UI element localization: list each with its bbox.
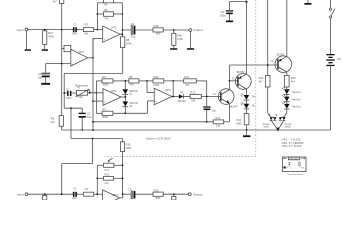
node top rail junction (square): [246, 1, 248, 3]
wire sidechain from R8 down and left: [64, 48, 123, 109]
wire T1 collector up: [228, 65, 230, 90]
svg-text:R25: R25: [291, 76, 296, 80]
node rail1 left end: [92, 121, 94, 123]
wire OP3 plus from bus: [92, 100, 103, 102]
node OP3 feedback top: [124, 80, 126, 82]
potentiometer P2: [104, 158, 114, 172]
svg-text:100µ: 100µ: [220, 13, 226, 17]
wire T1 emitter down to rail1: [228, 104, 230, 122]
node OP3 output: [124, 96, 126, 98]
wire OP3 feedback left vertical: [95, 81, 97, 113]
wire input row ch1: [28, 29, 73, 31]
svg-text:C4: C4: [131, 22, 135, 26]
capacitor C6 100u (supply decoupling): [220, 2, 233, 18]
node T2 base junction: [229, 80, 231, 82]
LDR opto resistor box (channel 1): [62, 45, 71, 51]
svg-text:Red led: Red led: [292, 91, 301, 94]
opto LED pair right (Comp/red): [279, 117, 292, 128]
output jack ch2: [188, 193, 202, 197]
wire T3 emitter up: [286, 0, 288, 56]
svg-text:Output: Output: [194, 28, 203, 32]
wire ch2 sidechain branch down: [71, 108, 123, 138]
capacitor C7 100n (threshold): [64, 87, 72, 100]
transistor T1 BC547: [213, 89, 238, 109]
wire T1 base cap stem: [206, 97, 208, 107]
svg-text:R15: R15: [154, 24, 159, 28]
svg-text:BC547: BC547: [230, 105, 238, 109]
svg-text:4k7: 4k7: [53, 0, 58, 3]
op-amp OP1: [71, 49, 88, 66]
svg-text:-: -: [104, 91, 105, 95]
wire C4b to R15b: [135, 193, 153, 195]
wire OP3 output: [121, 95, 125, 102]
junction input/R1 bias node: [61, 29, 63, 31]
resistor R6 (cropped at top): [104, 0, 114, 6]
diode D4: [241, 93, 256, 103]
wire T2 emitter up to top rail: [245, 2, 247, 74]
capacitor C4b 10u (output, ch2): [128, 188, 136, 199]
capacitor C2 10u: [38, 64, 50, 80]
svg-text:R9: R9: [102, 75, 106, 79]
opto LED pair left (Power/red): [263, 114, 277, 128]
svg-text:10k: 10k: [191, 98, 196, 102]
wire P1 to OP3 minus input: [88, 92, 103, 94]
node rail1/cap junction: [206, 121, 208, 123]
svg-text:220k: 220k: [102, 115, 108, 119]
svg-text:R36: R36: [177, 34, 182, 38]
resistor R10 220k: [153, 75, 164, 87]
ground under C6: [226, 14, 233, 22]
svg-text:47k: 47k: [104, 16, 109, 20]
svg-text:Output: Output: [193, 193, 202, 197]
diode D2 BAT43: [123, 102, 139, 114]
resistor R15b 500: [153, 189, 163, 201]
LED DL2 red: [282, 94, 301, 102]
svg-text:10µ: 10µ: [211, 109, 216, 113]
svg-text:OP3: OP3: [112, 193, 118, 197]
svg-text:100n: 100n: [66, 96, 72, 100]
node R20 right on bus: [122, 177, 124, 179]
wire opto pairs converge to rail: [271, 120, 284, 130]
svg-text:Optos = LCR 0202: Optos = LCR 0202: [146, 136, 171, 140]
svg-text:6M0: 6M0: [236, 122, 242, 126]
node OP2 minus junction: [97, 29, 99, 31]
svg-text:BC557: BC557: [277, 52, 285, 56]
node A junction input/R37: [44, 29, 46, 31]
wire OP1 output bus vertical: [92, 38, 94, 130]
svg-text:470: 470: [129, 83, 134, 87]
resistor R24 4k7: [259, 75, 270, 87]
node OP1 plus / bias bus: [61, 63, 63, 65]
node OP3b minus junction: [96, 193, 98, 195]
svg-text:R37: R37: [48, 31, 53, 35]
ground under C2: [41, 77, 50, 85]
svg-text:220k: 220k: [103, 83, 109, 87]
resistor R36 470k: [172, 30, 184, 45]
diode D6: [241, 102, 256, 113]
transistor T3 BC557: [270, 52, 291, 72]
svg-text:-: -: [104, 193, 105, 197]
node threshold/feedback junction: [96, 92, 98, 94]
svg-text:D3: D3: [180, 91, 184, 95]
resistor R3 10k: [83, 22, 93, 35]
svg-text:300k: 300k: [126, 146, 132, 150]
svg-text:(red): (red): [285, 126, 290, 129]
wire R3 to OP2 minus node: [94, 29, 103, 31]
capacitor C5 10u (attack): [79, 112, 92, 130]
svg-text:10k: 10k: [84, 32, 89, 36]
wire R15 to output jack: [163, 29, 189, 31]
wire R24 down to opto LEDs: [268, 87, 271, 117]
svg-text:R3: R3: [85, 22, 89, 26]
wire T2 base: [229, 80, 238, 82]
capacitor C1b 68n: [72, 187, 77, 200]
svg-text:LCR 0202: LCR 0202: [289, 159, 299, 161]
svg-text:OP4: OP4: [165, 88, 171, 92]
svg-text:63n: 63n: [72, 32, 77, 36]
label op-amp types: [282, 138, 304, 148]
resistor R9 220k: [102, 75, 113, 86]
node OP4 feedback junction: [172, 80, 174, 82]
wire R3b to OP3b: [94, 193, 103, 195]
node P34 on rail: [246, 129, 248, 131]
node P2 right on bus: [122, 164, 124, 166]
node feedback left mid: [97, 13, 99, 15]
svg-text:560: 560: [156, 32, 161, 36]
node output/R36 junction: [173, 29, 175, 31]
wire sidechain lower elbow to C5: [64, 108, 82, 113]
svg-text:R8: R8: [126, 38, 130, 42]
node OP4 output: [172, 96, 174, 98]
resistor R15 500: [153, 24, 163, 35]
wire bias bus down to OP1 + node: [61, 30, 63, 64]
resistor R38 470k (cropped): [43, 194, 47, 200]
wire OP3 feedback row: [96, 80, 206, 82]
svg-text:C4: C4: [128, 188, 132, 192]
resistor R2 47k (bias divider): [50, 64, 63, 130]
wire feedback top row: [97, 2, 122, 4]
svg-text:C1: C1: [73, 22, 77, 26]
svg-text:Input: Input: [17, 28, 24, 32]
node OP1 output: [92, 57, 94, 59]
svg-text:C2: C2: [38, 72, 42, 76]
wire OP2 plus input routing: [93, 38, 103, 57]
node input/R38 junction: [44, 193, 46, 195]
svg-text:10k: 10k: [216, 123, 221, 127]
wire base bias row to T3: [229, 64, 278, 66]
LED DL1 red: [282, 87, 301, 95]
svg-text:OP3, 4 = TL072: OP3, 4 = TL072: [282, 144, 302, 148]
wire LED chain down to opto pair: [284, 109, 287, 117]
resistor R20 47k: [97, 172, 122, 184]
wire feedback mid row: [97, 13, 122, 15]
input jack J1 (channel 1): [17, 28, 28, 32]
ground top right (supply return, cropped): [304, 0, 311, 5]
wire T2 collector down to D4: [245, 89, 247, 95]
svg-text:100k: 100k: [126, 42, 132, 46]
diode D3 BAT43: [178, 91, 190, 103]
ground under R36: [170, 45, 177, 49]
potentiometer P34 6M0: [236, 114, 249, 130]
resistor R16 300k: [120, 139, 132, 195]
svg-text:P34: P34: [236, 118, 241, 122]
svg-text:View from above: View from above: [287, 173, 303, 176]
node sidechain/opto branch: [70, 107, 72, 109]
svg-text:OP3: OP3: [111, 89, 117, 93]
resistor R36b 470k (cropped): [172, 194, 176, 200]
svg-text:Input: Input: [17, 193, 24, 197]
ground under output jack ch1: [187, 31, 194, 49]
wire C1b to R3b: [77, 193, 84, 195]
resistor R1 4k7 (from top rail, cropped): [53, 0, 64, 30]
resistor R12 10k: [190, 91, 221, 103]
svg-text:4k7: 4k7: [259, 80, 264, 84]
wire C4 to R15: [135, 29, 153, 31]
wire OP4 feedback vertical: [172, 81, 174, 97]
node C5 on rail: [81, 129, 83, 131]
node T3 base bias junction: [267, 64, 269, 66]
svg-text:BC557: BC557: [237, 70, 245, 74]
svg-text:470k: 470k: [177, 37, 183, 41]
svg-text:C1: C1: [73, 187, 77, 191]
wire P1 wiper tie: [89, 90, 91, 94]
svg-text:7k5: 7k5: [185, 83, 190, 87]
svg-text:Red led: Red led: [292, 106, 301, 109]
wire C1 to R3: [77, 29, 84, 31]
svg-text:C5: C5: [87, 112, 91, 116]
svg-text:OP2: OP2: [111, 25, 117, 29]
resistor R25 4k7: [285, 75, 297, 87]
wire OP3b output jog: [120, 194, 132, 198]
transistor T2 BC557: [231, 70, 251, 90]
node T1 base junction: [206, 96, 208, 98]
wire ch2 bias routing: [62, 139, 93, 195]
svg-text:R3: R3: [85, 187, 89, 191]
ground under input J1: [25, 31, 31, 51]
svg-text:63n: 63n: [72, 196, 77, 200]
node feedback/R10 junction: [146, 80, 148, 82]
wire T3 collector to R25: [286, 72, 288, 75]
resistor R3b 10k: [83, 187, 93, 196]
svg-text:BAT43: BAT43: [178, 99, 186, 103]
wire feedback right vertical to output: [121, 3, 123, 37]
op-amp OP3 (rectifier): [103, 89, 121, 106]
input jack J2 (channel 2): [17, 193, 28, 197]
svg-text:-: -: [104, 28, 105, 32]
svg-text:(BAT43): (BAT43): [129, 102, 138, 105]
svg-text:220k: 220k: [153, 83, 159, 87]
node sidechain/C7 junction: [63, 92, 65, 94]
node ch2 bias on input row: [61, 193, 63, 195]
svg-text:R12: R12: [191, 91, 196, 95]
svg-text:47k: 47k: [105, 181, 110, 185]
svg-text:50k: 50k: [78, 95, 83, 99]
wire OP4 minus branch: [147, 81, 154, 93]
svg-text:10µ: 10µ: [38, 76, 43, 80]
svg-text:C7: C7: [66, 87, 70, 91]
svg-text:R7: R7: [103, 107, 107, 111]
potentiometer P1 50k: [71, 86, 89, 100]
resistor R7 220k: [96, 107, 147, 119]
svg-text:(red): (red): [264, 126, 269, 129]
node feedback right mid: [122, 13, 124, 15]
resistor R37 470k: [43, 30, 55, 45]
node OP1 bus on rail: [92, 129, 94, 131]
wire ground rail (rail2): [62, 129, 331, 131]
svg-text:47k: 47k: [50, 120, 55, 124]
svg-text:R24: R24: [259, 76, 264, 80]
wire OP1 output: [88, 57, 93, 59]
wire P2/R20 left link: [97, 165, 103, 194]
resistor R5 47k: [104, 8, 114, 20]
wire input row ch2: [28, 193, 73, 195]
svg-text:560: 560: [156, 196, 161, 200]
svg-text:10µ: 10µ: [131, 35, 136, 39]
svg-text:OP1: OP1: [78, 50, 84, 54]
node OP2 output: [122, 33, 124, 35]
node output/R36b junction: [173, 193, 175, 195]
svg-text:+9V: +9V: [337, 58, 342, 61]
svg-text:R10: R10: [154, 75, 159, 79]
svg-text:R5: R5: [129, 75, 133, 79]
LED DL3 red: [282, 101, 301, 109]
switch S1: [329, 0, 335, 54]
svg-text:-: -: [155, 91, 156, 95]
node D2 bottom junction: [124, 112, 126, 114]
LCR 0202 package drawing: [282, 157, 306, 172]
wire T3 base bias vertical: [267, 0, 269, 75]
dashed enclosure optos: [105, 0, 256, 156]
battery BT1 9V: [326, 54, 341, 130]
svg-text:R5: R5: [104, 8, 108, 12]
op-amp OP4: [154, 88, 172, 105]
resistor R8 100k: [121, 37, 133, 48]
svg-text:R20: R20: [104, 172, 109, 176]
svg-text:10µ: 10µ: [87, 115, 92, 119]
svg-text:R2: R2: [51, 116, 55, 120]
op-amp OP2: [103, 25, 120, 42]
svg-text:R6: R6: [104, 2, 108, 6]
svg-text:R21: R21: [215, 116, 220, 120]
wire OP4 plus routing: [148, 101, 155, 113]
svg-text:C6: C6: [221, 10, 225, 14]
wire OP2 output apex: [120, 33, 122, 35]
op-amp OP3b (channel 2, cropped): [103, 190, 120, 207]
svg-text:R16: R16: [126, 143, 131, 147]
svg-text:P1: P1: [77, 86, 81, 90]
svg-text:R11: R11: [184, 75, 189, 79]
resistor R5b 470: [129, 75, 139, 86]
svg-text:Red led: Red led: [292, 98, 301, 101]
node R20 left: [96, 177, 98, 179]
wire feedback left vertical: [96, 3, 98, 30]
wire top rail to C6: [230, 1, 247, 3]
node opto return on rail: [277, 129, 279, 131]
diode D1 BAT43: [123, 81, 139, 96]
wire OP4 output: [172, 96, 179, 98]
wire OP1 plus input row: [46, 63, 71, 65]
wire rail1 (sidechain return): [93, 121, 229, 123]
capacitor C4 10u (output, ch1): [131, 22, 136, 39]
node OP3b output junction: [122, 193, 124, 195]
capacitor C8 10u (release): [204, 107, 217, 122]
ground under R37: [42, 44, 48, 50]
capacitor C1 68n: [72, 22, 77, 35]
wire output row to C4: [122, 29, 131, 31]
node output row tee: [122, 29, 124, 31]
wire P2 to bus: [114, 164, 123, 166]
node ch2 bias branch: [92, 138, 94, 140]
svg-text:R15: R15: [154, 189, 159, 193]
wire R15b to output jack ch2: [163, 193, 188, 195]
svg-text:470k: 470k: [48, 35, 54, 39]
svg-text:4k7: 4k7: [291, 80, 296, 84]
resistor R11 7k5: [184, 75, 197, 87]
wire R11 to cap node: [206, 81, 208, 97]
svg-text:P21: P21: [104, 168, 109, 172]
ground main (under rail): [243, 130, 250, 137]
resistor R21 10k: [213, 116, 224, 127]
svg-text:(BAT43): (BAT43): [129, 90, 138, 93]
output jack ch1: [189, 28, 203, 32]
